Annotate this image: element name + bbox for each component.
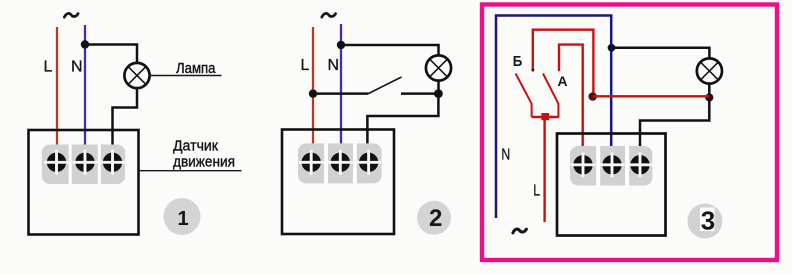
svg-text:Датчик: Датчик bbox=[173, 138, 218, 155]
wire N junction to lamp top (diagram 2) bbox=[341, 45, 439, 56]
terminal screw 1 (diagram 3) bbox=[571, 152, 596, 177]
pointer line to lamp label (diagram 1) bbox=[150, 75, 222, 77]
switch wire right segment (diagram 2) bbox=[401, 92, 438, 95]
wire lamp bottom to junction (diagram 3) bbox=[708, 84, 711, 98]
svg-text:движения: движения bbox=[173, 154, 235, 171]
terminal screw 1 (diagram 1) bbox=[44, 150, 69, 175]
junction dot lamp bottom (diagram 3) bbox=[705, 93, 713, 101]
junction dot on N wire (diagram 1) bbox=[81, 40, 89, 48]
terminal screw 3 (diagram 3) bbox=[628, 152, 653, 177]
wire N neutral (diagram 2) bbox=[340, 24, 342, 144]
lamp EL1 (diagram 1) bbox=[124, 63, 149, 88]
terminal strip (diagram 2) bbox=[298, 143, 382, 183]
svg-text:N: N bbox=[71, 59, 83, 76]
badge number 1 bbox=[164, 198, 201, 235]
switch fixed contact Б with loop to lamp line (diagram 3) bbox=[533, 30, 594, 94]
AC supply tilde ~ (diagram 3) bbox=[513, 229, 527, 233]
wire lamp junction to sensor terminal 3 (diagram 3) bbox=[640, 98, 709, 147]
junction dot on N wire (diagram 3) bbox=[608, 44, 616, 52]
svg-text:L: L bbox=[301, 57, 310, 74]
wire switch node to sensor terminal 3 (diagram 2) bbox=[367, 94, 438, 145]
wire N neutral (diagram 1) bbox=[84, 25, 86, 145]
terminal screw 2 (diagram 2) bbox=[328, 150, 353, 175]
motion sensor box (diagram 3) bbox=[557, 134, 666, 236]
terminal strip (diagram 1) bbox=[42, 145, 125, 185]
svg-text:L: L bbox=[533, 183, 540, 200]
svg-text:2: 2 bbox=[429, 205, 442, 232]
junction dot on N wire (diagram 2) bbox=[337, 41, 345, 49]
magenta frame (diagram 3) bbox=[482, 5, 777, 261]
terminal screw 2 (diagram 1) bbox=[73, 150, 98, 175]
wire L phase from supply to switch common (diagram 3) bbox=[543, 117, 545, 222]
svg-text:1: 1 bbox=[178, 208, 189, 230]
switch common bar (diagram 3) bbox=[532, 116, 559, 118]
lamp EL2 (diagram 2) bbox=[426, 55, 451, 80]
svg-text:L: L bbox=[44, 59, 53, 76]
svg-text:Лампа: Лампа bbox=[176, 61, 216, 77]
wire lamp bottom to switch node (diagram 2) bbox=[437, 81, 440, 94]
terminal strip (diagram 3) bbox=[570, 146, 652, 186]
wire N junction to lamp top (diagram 1) bbox=[85, 45, 137, 64]
pointer line to sensor label (diagram 1) bbox=[140, 170, 242, 172]
junction dot on L wire (diagram 2) bbox=[309, 89, 317, 97]
AC supply tilde ~ (diagram 2) bbox=[322, 13, 336, 17]
motion sensor box (diagram 1) bbox=[29, 130, 139, 235]
terminal screw 2 (diagram 3) bbox=[600, 152, 625, 177]
switch blade Б (diagram 3) bbox=[516, 74, 532, 118]
contact tip Б (diagram 3) bbox=[532, 69, 535, 72]
label Датчик движения (diagram 1) bbox=[173, 138, 235, 171]
switch common junction square (diagram 3) bbox=[541, 113, 549, 120]
badge number 3 bbox=[688, 204, 723, 239]
svg-text:А: А bbox=[558, 74, 568, 89]
junction dot switch output to lamp (diagram 3) bbox=[588, 92, 597, 101]
switch blade S1 (diagram 2) bbox=[368, 77, 401, 94]
AC supply tilde ~ (diagram 1) bbox=[64, 13, 78, 17]
lamp EL3 (diagram 3) bbox=[697, 58, 722, 83]
svg-text:N: N bbox=[328, 57, 340, 74]
wire lamp bottom to sensor terminal 3 (diagram 1) bbox=[113, 88, 138, 145]
terminal screw 3 (diagram 2) bbox=[356, 150, 381, 175]
switch wire left segment (diagram 2) bbox=[313, 92, 368, 95]
wire L phase (diagram 1) bbox=[56, 27, 58, 145]
svg-text:N: N bbox=[501, 147, 510, 164]
switch blade А (diagram 3) bbox=[543, 74, 558, 118]
svg-text:Б: Б bbox=[513, 54, 523, 70]
terminal screw 3 (diagram 1) bbox=[100, 150, 125, 175]
wire N neutral blue (diagram 3) bbox=[496, 16, 611, 219]
wire switch output to lamp junction (diagram 3) bbox=[593, 95, 709, 97]
junction dot lamp/switch node (diagram 2) bbox=[434, 89, 443, 98]
switch fixed contact А with wire to sensor terminal 1 (diagram 3) bbox=[559, 45, 583, 146]
terminal screw 1 (diagram 2) bbox=[299, 150, 324, 175]
wire L phase (diagram 2) bbox=[312, 27, 314, 144]
wire N junction to lamp top (diagram 3) bbox=[611, 48, 709, 59]
svg-text:3: 3 bbox=[701, 206, 715, 236]
badge number 2 bbox=[417, 201, 451, 235]
motion sensor box (diagram 2) bbox=[282, 130, 394, 235]
